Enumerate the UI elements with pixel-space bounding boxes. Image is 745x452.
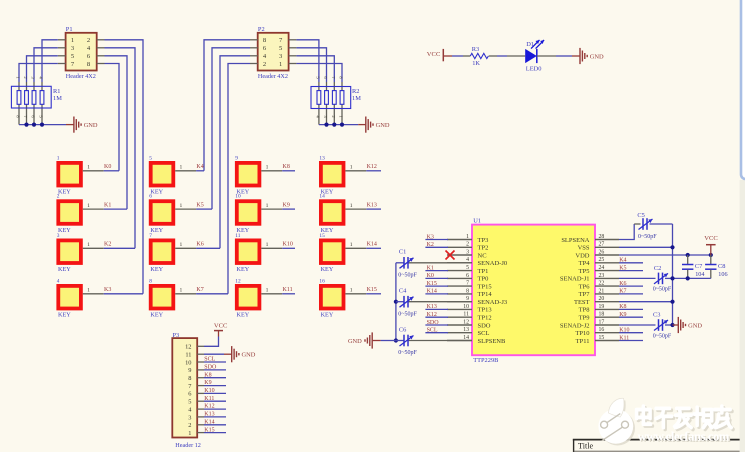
svg-text:TP11: TP11 bbox=[576, 338, 590, 345]
svg-text:K15: K15 bbox=[204, 427, 214, 433]
svg-text:K6: K6 bbox=[196, 242, 203, 248]
svg-text:20: 20 bbox=[599, 296, 605, 302]
svg-text:6: 6 bbox=[149, 194, 152, 200]
wire P2.2 to key K7 bbox=[228, 64, 250, 294]
svg-text:KEY: KEY bbox=[321, 266, 334, 273]
key 2 (KEY) bbox=[57, 194, 104, 234]
svg-text:1: 1 bbox=[87, 288, 90, 294]
svg-text:K8: K8 bbox=[283, 164, 290, 170]
svg-text:KEY: KEY bbox=[58, 189, 71, 196]
svg-text:K11: K11 bbox=[283, 287, 293, 293]
scrollbar thumb bbox=[741, 0, 745, 179]
junction bbox=[686, 253, 690, 257]
svg-text:K11: K11 bbox=[204, 396, 214, 402]
svg-text:SCL: SCL bbox=[204, 357, 215, 363]
svg-text:SCL: SCL bbox=[478, 330, 490, 337]
svg-text:SCL: SCL bbox=[427, 328, 438, 334]
net SDO wire and label (U1 pin 12) bbox=[425, 320, 448, 326]
svg-text:U1: U1 bbox=[473, 217, 481, 224]
junction bbox=[670, 300, 674, 304]
ground (C3) bbox=[673, 324, 679, 326]
svg-text:1: 1 bbox=[266, 203, 269, 209]
capacitor C4 0~50pF bbox=[396, 287, 472, 317]
svg-text:K13: K13 bbox=[427, 304, 437, 310]
svg-text:27: 27 bbox=[599, 242, 605, 248]
ground (R1) bbox=[74, 117, 98, 133]
svg-text:6: 6 bbox=[188, 391, 191, 398]
svg-text:1: 1 bbox=[87, 242, 90, 248]
net K12 wire and label (P3.4) bbox=[204, 404, 226, 410]
net K6 wire and label bbox=[196, 242, 220, 249]
svg-text:Header 4X2: Header 4X2 bbox=[66, 73, 96, 80]
svg-text:C8: C8 bbox=[718, 263, 725, 270]
svg-text:8: 8 bbox=[149, 278, 152, 284]
svg-text:P2: P2 bbox=[258, 26, 265, 33]
key 10 (KEY) bbox=[235, 194, 282, 234]
svg-text:K15: K15 bbox=[427, 281, 437, 287]
svg-text:0~50pF: 0~50pF bbox=[638, 234, 657, 240]
net K12 wire and label (U1 pin 11) bbox=[425, 312, 448, 318]
wire P3.12 to VCC bbox=[204, 337, 219, 347]
watermark elecfans logo bbox=[598, 398, 635, 445]
wire P2.3 to R2 bbox=[296, 56, 334, 82]
net K15 wire and label bbox=[366, 287, 381, 294]
svg-text:K14: K14 bbox=[204, 419, 214, 425]
net K10 wire and label bbox=[282, 242, 295, 249]
svg-text:K0: K0 bbox=[104, 164, 111, 170]
svg-text:16: 16 bbox=[599, 327, 605, 333]
net K4 wire and label bbox=[196, 164, 204, 171]
net K3 wire and label bbox=[104, 287, 143, 294]
svg-text:1: 1 bbox=[57, 155, 60, 161]
wire P2.6 to key K5 bbox=[212, 48, 250, 209]
svg-text:K2: K2 bbox=[104, 242, 111, 248]
svg-text:0~50pF: 0~50pF bbox=[398, 272, 417, 278]
svg-text:1: 1 bbox=[350, 165, 353, 171]
svg-text:VCC: VCC bbox=[704, 235, 718, 242]
wire capacitor bus C1/C4/C6 bbox=[395, 263, 397, 341]
ground (LED) bbox=[580, 48, 604, 64]
resistor network R1 1M bbox=[11, 76, 62, 124]
svg-text:KEY: KEY bbox=[58, 266, 71, 273]
net K9 wire and label bbox=[282, 203, 295, 210]
power VCC (P3.12) bbox=[214, 323, 228, 337]
svg-text:KEY: KEY bbox=[58, 227, 71, 234]
svg-text:0~50pF: 0~50pF bbox=[653, 287, 672, 293]
wire cap bottoms to bus bbox=[673, 277, 711, 279]
junction bbox=[670, 323, 674, 327]
svg-text:1: 1 bbox=[180, 288, 183, 294]
svg-text:K11: K11 bbox=[619, 335, 629, 341]
svg-text:12: 12 bbox=[185, 344, 191, 351]
power VCC (U1 VDD) bbox=[704, 235, 718, 255]
svg-text:Header 12: Header 12 bbox=[175, 442, 201, 449]
key 1 (KEY) bbox=[57, 155, 104, 195]
svg-text:SDO: SDO bbox=[478, 322, 491, 329]
capacitor C8 106 bbox=[705, 255, 727, 278]
svg-text:1: 1 bbox=[87, 165, 90, 171]
svg-text:2: 2 bbox=[466, 242, 469, 248]
ground (P3.11) bbox=[232, 346, 256, 362]
svg-text:KEY: KEY bbox=[150, 189, 163, 196]
svg-text:7: 7 bbox=[466, 281, 469, 287]
wire P1.1 to R1 bbox=[42, 40, 58, 82]
wire D1 to ground bbox=[556, 55, 572, 57]
svg-text:5: 5 bbox=[149, 155, 152, 161]
capacitor C1 0~50pF bbox=[396, 249, 472, 279]
LED D1 LED0 bbox=[507, 40, 556, 73]
connector P2 (Header 4X2) bbox=[250, 26, 296, 80]
watermark chinese characters bbox=[637, 406, 733, 429]
svg-text:8: 8 bbox=[188, 375, 191, 382]
svg-text:C6: C6 bbox=[399, 326, 406, 333]
net K10 wire and label (P3.6) bbox=[204, 388, 226, 394]
svg-text:3: 3 bbox=[57, 233, 60, 239]
svg-text:16: 16 bbox=[319, 278, 325, 284]
net K8 wire and label bbox=[282, 164, 295, 171]
wire P1.8 to key K0 bbox=[105, 64, 120, 171]
svg-text:15: 15 bbox=[599, 335, 605, 341]
svg-text:1: 1 bbox=[266, 165, 269, 171]
svg-text:R2: R2 bbox=[352, 88, 359, 95]
wire P1.2 to key K3 bbox=[105, 40, 144, 294]
svg-text:1: 1 bbox=[87, 203, 90, 209]
svg-text:14: 14 bbox=[319, 194, 325, 200]
wire P1.4 to key K2 bbox=[105, 48, 136, 249]
svg-text:C2: C2 bbox=[654, 265, 661, 272]
svg-text:TP9: TP9 bbox=[579, 315, 590, 322]
svg-text:0~50pF: 0~50pF bbox=[398, 350, 417, 356]
svg-text:10: 10 bbox=[185, 359, 191, 366]
svg-text:1: 1 bbox=[279, 61, 282, 68]
net K11 wire and label (U1 pin 15) bbox=[619, 335, 643, 341]
svg-text:GND: GND bbox=[84, 122, 98, 129]
svg-text:K10: K10 bbox=[204, 388, 214, 394]
svg-text:LED0: LED0 bbox=[526, 66, 542, 73]
svg-text:TP2: TP2 bbox=[478, 245, 489, 252]
svg-text:1K: 1K bbox=[472, 60, 480, 67]
svg-text:10: 10 bbox=[463, 304, 469, 310]
svg-text:VDD: VDD bbox=[575, 252, 589, 259]
wire right vertical bus bbox=[672, 224, 674, 325]
capacitor C6 0~50pF bbox=[396, 326, 472, 356]
svg-text:K5: K5 bbox=[196, 203, 203, 209]
power VCC (top) bbox=[427, 49, 452, 61]
svg-text:K12: K12 bbox=[204, 404, 214, 410]
svg-text:K9: K9 bbox=[619, 312, 626, 318]
svg-text:13: 13 bbox=[319, 155, 325, 161]
net K14 wire and label (P3.2) bbox=[204, 419, 226, 425]
title block bbox=[573, 440, 745, 452]
svg-text:K12: K12 bbox=[367, 164, 377, 170]
svg-text:TP4: TP4 bbox=[579, 260, 591, 267]
svg-text:5: 5 bbox=[466, 265, 469, 271]
svg-text:5: 5 bbox=[188, 399, 191, 406]
svg-text:4: 4 bbox=[57, 278, 60, 284]
key 3 (KEY) bbox=[57, 233, 104, 273]
svg-text:TP7: TP7 bbox=[579, 291, 591, 298]
junction bbox=[709, 253, 713, 257]
svg-text:15: 15 bbox=[319, 233, 325, 239]
capacitor C2 0~50pF (U1 pin23 SENAD-J1) bbox=[619, 265, 673, 292]
svg-text:1: 1 bbox=[350, 242, 353, 248]
junction bbox=[32, 123, 36, 127]
junction bbox=[332, 123, 336, 127]
svg-text:TP15: TP15 bbox=[478, 283, 492, 290]
wire U1 pin26 VDD to VCC bbox=[619, 254, 711, 256]
svg-text:19: 19 bbox=[599, 304, 605, 310]
net K11 wire and label bbox=[282, 287, 295, 294]
wire P3.11 to ground bbox=[204, 353, 224, 355]
svg-text:TP13: TP13 bbox=[478, 307, 492, 314]
junction bbox=[340, 123, 344, 127]
net K9 wire and label (P3.7) bbox=[204, 380, 226, 386]
wire P1.3 to R1 bbox=[34, 48, 58, 82]
svg-text:TP14: TP14 bbox=[478, 291, 493, 298]
svg-text:7: 7 bbox=[149, 233, 152, 239]
svg-text:Title: Title bbox=[578, 441, 594, 450]
svg-text:9: 9 bbox=[235, 155, 238, 161]
svg-text:K5: K5 bbox=[619, 265, 626, 271]
svg-text:KEY: KEY bbox=[237, 266, 250, 273]
key 9 (KEY) bbox=[235, 155, 282, 195]
svg-text:K8: K8 bbox=[619, 304, 626, 310]
svg-text:9: 9 bbox=[188, 367, 191, 374]
svg-text:3: 3 bbox=[188, 414, 191, 421]
net K5 wire and label bbox=[196, 203, 212, 210]
net K15 wire and label (P3.1) bbox=[204, 427, 226, 433]
svg-text:K4: K4 bbox=[196, 164, 203, 170]
net K9 wire and label (U1 pin 18) bbox=[619, 312, 643, 318]
key 4 (KEY) bbox=[57, 278, 104, 318]
svg-text:KEY: KEY bbox=[58, 312, 71, 319]
junction bbox=[394, 300, 398, 304]
svg-text:24: 24 bbox=[599, 265, 605, 271]
svg-text:TP5: TP5 bbox=[579, 268, 590, 275]
svg-text:TP3: TP3 bbox=[478, 237, 489, 244]
svg-text:KEY: KEY bbox=[321, 312, 334, 319]
svg-text:SENAD-J1: SENAD-J1 bbox=[560, 276, 590, 283]
svg-text:1: 1 bbox=[350, 203, 353, 209]
capacitor C7 104 bbox=[682, 255, 704, 278]
key 16 (KEY) bbox=[319, 278, 366, 318]
key 8 (KEY) bbox=[149, 278, 196, 318]
svg-text:TP12: TP12 bbox=[478, 315, 492, 322]
svg-text:17: 17 bbox=[599, 319, 605, 325]
IC U1 TTP229B bbox=[447, 217, 619, 364]
svg-text:1: 1 bbox=[71, 37, 74, 44]
svg-text:3: 3 bbox=[466, 249, 469, 255]
resistor R3 1K bbox=[463, 46, 497, 67]
net K1 wire and label (U1 pin 5) bbox=[425, 265, 448, 271]
svg-text:SDO: SDO bbox=[427, 320, 440, 326]
svg-text:6: 6 bbox=[466, 273, 469, 279]
no-connect X on U1 pin 3 bbox=[446, 251, 455, 260]
resistor network R2 1M bbox=[311, 76, 361, 124]
svg-text:K0: K0 bbox=[427, 273, 434, 279]
svg-text:8: 8 bbox=[466, 288, 469, 294]
svg-text:12: 12 bbox=[463, 319, 469, 325]
svg-text:25: 25 bbox=[599, 257, 605, 263]
ground (cap bus) bbox=[381, 340, 396, 342]
junction bbox=[40, 123, 44, 127]
svg-text:R1: R1 bbox=[53, 88, 60, 95]
junction bbox=[686, 276, 690, 280]
svg-text:K2: K2 bbox=[427, 242, 434, 248]
svg-text:SENAD-J0: SENAD-J0 bbox=[478, 260, 508, 267]
svg-text:2: 2 bbox=[87, 37, 90, 44]
svg-text:R3: R3 bbox=[472, 46, 479, 53]
svg-text:18: 18 bbox=[599, 312, 605, 318]
net K8 wire and label (P3.8) bbox=[204, 372, 226, 378]
svg-text:Header 4X2: Header 4X2 bbox=[258, 73, 288, 80]
svg-text:1M: 1M bbox=[352, 95, 361, 102]
net K2 wire and label (U1 pin 2) bbox=[425, 242, 448, 248]
net K3 wire and label (U1 pin 1) bbox=[425, 234, 448, 240]
svg-text:GND: GND bbox=[376, 122, 390, 129]
svg-text:C1: C1 bbox=[399, 249, 406, 256]
net K10 wire and label (U1 pin 16) bbox=[619, 328, 643, 334]
wire P2.5 to R2 bbox=[296, 48, 326, 82]
wire P1.7 to R1 bbox=[19, 64, 58, 83]
svg-text:12: 12 bbox=[235, 278, 241, 284]
junction bbox=[670, 245, 674, 249]
svg-text:K1: K1 bbox=[104, 203, 111, 209]
svg-text:K4: K4 bbox=[619, 258, 626, 264]
svg-text:NC: NC bbox=[478, 252, 487, 259]
net SCL wire and label (U1 pin 13) bbox=[425, 328, 448, 334]
capacitor C5 0~50pF bbox=[634, 212, 672, 240]
svg-text:2: 2 bbox=[57, 194, 60, 200]
net K7 wire and label bbox=[196, 287, 228, 294]
svg-text:K9: K9 bbox=[204, 380, 211, 386]
key 13 (KEY) bbox=[319, 155, 366, 195]
connector P1 (Header 4X2) bbox=[58, 26, 105, 80]
wire P2.8 to key K4 bbox=[204, 40, 250, 171]
svg-text:GND: GND bbox=[242, 352, 256, 359]
svg-text:1: 1 bbox=[466, 234, 469, 240]
svg-text:1M: 1M bbox=[53, 95, 62, 102]
svg-text:P3: P3 bbox=[173, 332, 180, 339]
svg-text:GND: GND bbox=[590, 53, 604, 60]
svg-text:1: 1 bbox=[180, 165, 183, 171]
svg-text:2: 2 bbox=[263, 61, 266, 68]
svg-text:C7: C7 bbox=[695, 263, 703, 270]
net SCL wire and label (P3.10) bbox=[204, 357, 226, 363]
svg-text:TTP229B: TTP229B bbox=[473, 357, 498, 364]
svg-text:K8: K8 bbox=[204, 372, 211, 378]
key 7 (KEY) bbox=[149, 233, 196, 273]
svg-text:K14: K14 bbox=[367, 242, 377, 248]
junction bbox=[24, 123, 28, 127]
wire U1 pin28 SLPSENA to C5 bbox=[619, 224, 634, 240]
wire P1.6 to key K1 bbox=[105, 56, 128, 209]
svg-text:K13: K13 bbox=[367, 203, 377, 209]
junction bbox=[394, 338, 398, 342]
svg-text:28: 28 bbox=[599, 234, 605, 240]
svg-text:1: 1 bbox=[266, 288, 269, 294]
svg-text:11: 11 bbox=[235, 233, 240, 239]
svg-text:SLPSENB: SLPSENB bbox=[478, 338, 506, 345]
net K12 wire and label bbox=[366, 164, 381, 171]
svg-text:1: 1 bbox=[350, 288, 353, 294]
svg-text:K1: K1 bbox=[427, 265, 434, 271]
svg-text:22: 22 bbox=[599, 281, 605, 287]
svg-text:11: 11 bbox=[185, 351, 191, 358]
svg-text:K13: K13 bbox=[204, 412, 214, 418]
svg-text:0~50pF: 0~50pF bbox=[398, 311, 417, 317]
net K14 wire and label (U1 pin 8) bbox=[425, 289, 448, 295]
key 12 (KEY) bbox=[235, 278, 282, 318]
svg-text:K10: K10 bbox=[619, 328, 629, 334]
svg-text:VCC: VCC bbox=[427, 51, 441, 58]
wire P1.5 to R1 bbox=[27, 56, 58, 82]
svg-text:TEST: TEST bbox=[574, 299, 590, 306]
svg-text:1: 1 bbox=[188, 430, 191, 437]
svg-text:KEY: KEY bbox=[150, 266, 163, 273]
net K15 wire and label (U1 pin 7) bbox=[425, 281, 448, 287]
wire R2 to ground bus bbox=[319, 124, 358, 126]
svg-text:TP8: TP8 bbox=[579, 307, 590, 314]
svg-text:13: 13 bbox=[463, 327, 469, 333]
svg-text:TP1: TP1 bbox=[478, 268, 489, 275]
net K5 wire and label (U1 pin 24) bbox=[619, 265, 643, 271]
svg-text:K15: K15 bbox=[367, 287, 377, 293]
wire P2.7 to R2 bbox=[296, 40, 319, 82]
svg-text:2: 2 bbox=[188, 422, 191, 429]
net K13 wire and label (P3.3) bbox=[204, 412, 226, 418]
key 15 (KEY) bbox=[319, 233, 366, 273]
svg-text:26: 26 bbox=[599, 249, 605, 255]
net K6 wire and label (U1 pin 22) bbox=[619, 281, 643, 287]
svg-text:0~50pF: 0~50pF bbox=[653, 333, 672, 339]
svg-text:KEY: KEY bbox=[237, 312, 250, 319]
svg-text:K9: K9 bbox=[283, 203, 290, 209]
svg-text:23: 23 bbox=[599, 273, 605, 279]
svg-text:www.elecfans.com: www.elecfans.com bbox=[638, 430, 730, 444]
capacitor C3 0~50pF (U1 pin17 SENAD-J2) bbox=[619, 311, 673, 339]
svg-text:GND: GND bbox=[688, 322, 702, 329]
svg-text:K7: K7 bbox=[196, 287, 203, 293]
wire VCC to R3 bbox=[452, 55, 463, 57]
svg-text:SLPSENA: SLPSENA bbox=[561, 237, 589, 244]
svg-text:VSS: VSS bbox=[578, 245, 590, 252]
svg-text:GND: GND bbox=[348, 338, 362, 345]
svg-text:VCC: VCC bbox=[214, 323, 228, 330]
junction bbox=[324, 123, 328, 127]
svg-text:1: 1 bbox=[180, 203, 183, 209]
net K1 wire and label bbox=[104, 203, 127, 210]
svg-text:K6: K6 bbox=[619, 281, 626, 287]
svg-text:K12: K12 bbox=[427, 312, 437, 318]
scrollbar track bbox=[740, 180, 745, 452]
svg-text:K10: K10 bbox=[283, 242, 293, 248]
net K0 wire and label (U1 pin 6) bbox=[425, 273, 448, 279]
key 14 (KEY) bbox=[319, 194, 366, 234]
svg-text:SENAD-J2: SENAD-J2 bbox=[560, 322, 590, 329]
svg-text:TP10: TP10 bbox=[575, 330, 589, 337]
svg-text:K3: K3 bbox=[104, 287, 111, 293]
svg-text:TP0: TP0 bbox=[478, 276, 489, 283]
svg-text:P1: P1 bbox=[66, 26, 73, 33]
wire P2.4 to key K6 bbox=[220, 56, 250, 249]
net K11 wire and label (P3.5) bbox=[204, 396, 226, 402]
svg-text:C4: C4 bbox=[399, 287, 407, 294]
connector P3 (Header 12) bbox=[172, 332, 204, 449]
wire U1 pin27 VSS to bus bbox=[619, 246, 673, 248]
svg-text:K14: K14 bbox=[427, 289, 437, 295]
svg-text:C3: C3 bbox=[653, 311, 660, 318]
